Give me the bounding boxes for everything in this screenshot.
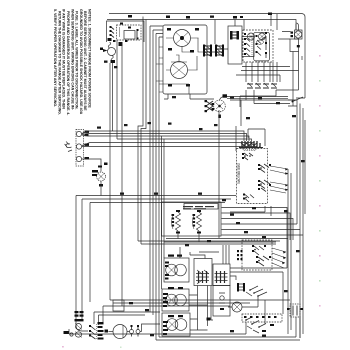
fan connector CN2 [89, 324, 97, 339]
surface switch fan arrows [272, 248, 286, 268]
lower switch dashed box [242, 314, 282, 322]
bake element coil [172, 212, 181, 239]
ground symbol [65, 142, 73, 152]
wire bottom-left corners [94, 131, 265, 325]
timer cluster pin dots [167, 28, 224, 87]
selector rotated label [237, 163, 241, 184]
oven light B1 [97, 172, 106, 181]
surface switch pins [237, 245, 271, 263]
harness connector CN1 [236, 126, 265, 151]
wire riser x208 [211, 286, 213, 320]
wire loops around timer [150, 26, 163, 340]
wire right verticals upper [273, 14, 277, 82]
wire steps above elements [180, 247, 219, 259]
surface switch diagonals upper [246, 286, 267, 297]
lower switch contacts [245, 317, 266, 333]
wire terminal N to oven light [82, 159, 101, 172]
narrow box cluster [231, 32, 239, 38]
oven selector switch box [237, 149, 268, 204]
wire code labels [97, 16, 305, 337]
wire element risers [198, 245, 230, 330]
wire fan to right [140, 324, 160, 332]
wire left vertical bus [117, 40, 122, 306]
oven light labels [92, 166, 103, 187]
wire timer to relay section [207, 14, 271, 53]
fan plug contacts [127, 325, 140, 337]
wire light to lower bus [100, 181, 102, 196]
wire lower right links [230, 206, 290, 324]
wire staircase transition [222, 208, 306, 269]
wire elements to risers [189, 295, 208, 330]
power cord P1 [103, 42, 116, 61]
relay K1 contacts [111, 27, 137, 38]
wire nested loop verticals [138, 17, 146, 245]
surface element RR box [164, 258, 189, 282]
indicator light L1 [248, 33, 255, 40]
terminal block TB [76, 130, 84, 167]
line terminal rings [75, 324, 82, 338]
wire from cord to bus [110, 63, 113, 131]
cooling fan motor M3 [109, 325, 128, 339]
line connector pins [75, 311, 84, 321]
element plug box B [213, 264, 230, 286]
surface switch connector CN3 [237, 283, 245, 292]
power relay box K1 [107, 21, 145, 42]
oven lamp assembly [290, 23, 302, 52]
selector contacts right1 [260, 164, 269, 173]
latch blobs [218, 94, 227, 118]
wire under elements [164, 239, 288, 243]
bake broil element box [162, 202, 222, 236]
timer motor M [174, 30, 191, 47]
receptacle box right [213, 286, 230, 317]
element pin dots [176, 210, 201, 234]
selector contacts right2 [260, 180, 270, 192]
selector pin dots [242, 153, 271, 200]
RF element labels [163, 287, 183, 307]
narrow box right of timer [228, 26, 242, 64]
wire right bus verticals [288, 100, 305, 338]
selector contacts lower [245, 195, 254, 203]
selector fan arrows [270, 166, 288, 193]
surface element LF box [162, 313, 190, 336]
timer left stubs [156, 47, 163, 92]
wire lower 3-line bus [76, 196, 236, 326]
timer terminal cluster T1 [204, 45, 211, 56]
element plug box A [194, 259, 212, 286]
broil element coil [193, 212, 202, 242]
wire bottom bus [69, 317, 300, 340]
wire timer internal [163, 38, 204, 94]
wire timer box bottom drop [164, 94, 214, 99]
svg-text:5. VERIFY PROPER OPERATION AFT: 5. VERIFY PROPER OPERATION AFTER ANY SER… [53, 9, 57, 107]
indicator light L3 [228, 302, 246, 312]
wire relay outputs [230, 62, 299, 126]
surface element RF box [162, 289, 189, 311]
connector fan wires [239, 146, 260, 151]
timer contacts [171, 62, 188, 79]
LF element labels [163, 315, 183, 335]
lamp connector pins [291, 32, 300, 48]
coil labels [172, 214, 196, 227]
thermal limiter TL [287, 304, 303, 317]
surface switch box dashed [242, 240, 272, 270]
label Y [207, 318, 211, 321]
wire right side from sensor [276, 52, 305, 107]
timer terminal cluster T2 [216, 45, 223, 56]
lower switch pin dots [244, 316, 277, 332]
selector contacts upper [244, 153, 253, 160]
wire main 6-line bus to connector [82, 131, 257, 147]
terminal labels [85, 131, 108, 166]
clock timer box A1 [163, 25, 207, 94]
relay board pin dots [244, 32, 267, 55]
wire middle verticals [162, 110, 220, 289]
door switch diagonal [278, 24, 303, 103]
relay terminal dots [110, 23, 139, 43]
element label plate [183, 204, 218, 210]
fan connector labels [98, 322, 109, 340]
RR element labels [165, 255, 182, 280]
wire L2 top bus [107, 20, 296, 31]
latch motor M4 [214, 97, 288, 112]
cord labels [100, 38, 123, 63]
indicator light L2 [259, 33, 266, 40]
relay board contacts [246, 36, 266, 58]
wire mid corners [138, 241, 280, 244]
latch connector cluster [205, 100, 215, 112]
relay board box dashed [243, 30, 273, 62]
neutral label [64, 331, 74, 336]
svg-text:(SEE BELOW): (SEE BELOW) [237, 163, 241, 184]
notes text block [53, 9, 91, 115]
wire relay board row below [247, 83, 277, 88]
wire L1 top bus [109, 14, 305, 99]
